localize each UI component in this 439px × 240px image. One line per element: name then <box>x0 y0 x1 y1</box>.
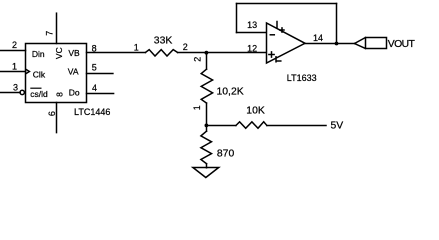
svg-text:1: 1 <box>192 105 202 110</box>
wire VB pin8 <box>87 52 146 54</box>
svg-text:6: 6 <box>47 111 57 116</box>
svg-text:7: 7 <box>45 31 55 36</box>
VOUT flag box <box>366 38 387 49</box>
op-amp V+ plus mark <box>280 29 284 31</box>
op-amp U2 LT1633 triangle <box>267 23 306 63</box>
op-amp V+ power stub <box>276 22 278 29</box>
resistor 10K <box>236 122 267 129</box>
wire Clk pin1 <box>0 71 26 73</box>
IC U1 LTC1446 body <box>26 44 87 103</box>
VOUT flag arrowhead <box>355 38 366 44</box>
svg-text:Din: Din <box>32 49 45 59</box>
op-amp V- power stub <box>275 57 277 62</box>
svg-text:Do: Do <box>69 88 80 98</box>
svg-text:870: 870 <box>217 148 235 159</box>
svg-text:LT1633: LT1633 <box>287 73 317 83</box>
junction node A (33K / 10,2K / pin12) <box>205 51 209 55</box>
svg-text:33K: 33K <box>154 35 173 46</box>
svg-text:8: 8 <box>92 43 97 53</box>
wire feedback right vertical <box>336 4 338 44</box>
svg-text:VOUT: VOUT <box>388 39 416 50</box>
inverter bubble CS/Ld <box>20 90 24 94</box>
svg-text:VA: VA <box>68 66 79 76</box>
svg-text:2: 2 <box>193 57 203 62</box>
svg-text:LTC1446: LTC1446 <box>74 107 110 117</box>
svg-text:cs/ld: cs/ld <box>30 89 48 99</box>
wire 870 to ground <box>206 164 208 168</box>
ground <box>193 168 219 178</box>
svg-text:5: 5 <box>92 62 97 72</box>
svg-text:Clk: Clk <box>33 70 46 80</box>
svg-text:1: 1 <box>134 42 139 52</box>
svg-text:10,2K: 10,2K <box>217 87 244 98</box>
svg-text:3: 3 <box>13 82 18 92</box>
svg-text:2: 2 <box>12 40 17 50</box>
resistor 10,2K <box>201 69 212 103</box>
svg-text:14: 14 <box>313 33 323 43</box>
svg-text:8: 8 <box>55 92 65 97</box>
wire junction to 870 <box>206 126 208 132</box>
wire 33K to op-amp +input pin12 <box>178 52 266 54</box>
resistor 33K <box>145 50 177 56</box>
svg-text:2: 2 <box>183 42 188 52</box>
svg-text:12: 12 <box>247 43 257 53</box>
wire node down from junction <box>206 53 208 70</box>
op-amp V- minus mark <box>277 60 281 62</box>
wire Do pin4 <box>87 93 114 95</box>
clock wedge Clk <box>26 70 29 74</box>
wire feedback top <box>237 3 337 5</box>
svg-text:13: 13 <box>247 20 257 30</box>
op-amp minus input label <box>270 34 274 36</box>
wire CS/Ld pin3 <box>0 92 20 94</box>
wire lower junction to 10K <box>207 125 236 127</box>
wire 10K to 5V <box>267 125 326 127</box>
wire op-amp -input pin13 <box>237 32 267 34</box>
junction node output/feedback <box>335 42 339 46</box>
svg-text:VB: VB <box>68 48 80 58</box>
wire 10,2K to lower junction <box>206 103 208 125</box>
wire GND pin6 bottom <box>56 103 58 133</box>
op-amp plus input label <box>269 54 274 56</box>
overline cs <box>30 87 41 89</box>
wire VC pin7 top <box>56 13 58 43</box>
wire output pin14 <box>305 43 355 45</box>
wire VA pin5 <box>87 73 113 75</box>
junction node B (10,2K / 10K / 870) <box>205 124 209 128</box>
svg-text:1: 1 <box>12 62 17 72</box>
svg-text:4: 4 <box>92 83 97 93</box>
svg-text:5V: 5V <box>331 121 344 132</box>
wire Din pin2 <box>0 50 26 52</box>
wire feedback left vertical <box>236 4 238 33</box>
svg-text:VC: VC <box>54 47 64 59</box>
resistor 870 <box>201 131 212 164</box>
svg-text:10K: 10K <box>246 106 265 117</box>
